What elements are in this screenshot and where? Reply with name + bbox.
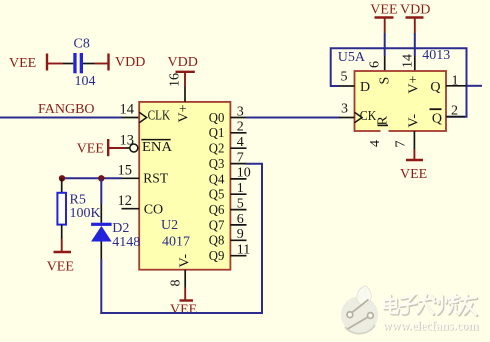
svg-text:5: 5	[237, 196, 244, 211]
svg-text:11: 11	[237, 243, 250, 258]
svg-text:VEE: VEE	[77, 141, 104, 156]
svg-text:Q: Q	[432, 111, 442, 126]
svg-text:7: 7	[394, 141, 409, 148]
svg-text:6: 6	[237, 212, 244, 227]
svg-text:R: R	[376, 116, 391, 126]
svg-text:VEE: VEE	[400, 167, 427, 182]
svg-text:U5A: U5A	[338, 50, 366, 65]
svg-text:D2: D2	[112, 221, 129, 236]
svg-text:2: 2	[237, 120, 244, 135]
svg-text:15: 15	[118, 163, 133, 179]
svg-text:U2: U2	[161, 218, 178, 233]
svg-text:VEE: VEE	[47, 260, 74, 275]
svg-text:V-: V-	[407, 114, 422, 128]
svg-text:4: 4	[237, 135, 244, 150]
svg-text:D: D	[360, 80, 370, 95]
svg-text:10: 10	[237, 166, 251, 181]
svg-text:16: 16	[168, 73, 183, 87]
svg-text:1: 1	[452, 73, 459, 88]
svg-text:VDD: VDD	[400, 3, 430, 18]
svg-text:V+: V+	[407, 75, 422, 93]
svg-text:7: 7	[237, 150, 244, 165]
svg-text:100K: 100K	[70, 206, 101, 221]
svg-text:14: 14	[401, 54, 416, 68]
svg-text:CLK: CLK	[148, 109, 171, 124]
svg-text:Q3: Q3	[209, 157, 225, 172]
svg-text:VEE: VEE	[370, 3, 397, 18]
svg-text:FANGBO: FANGBO	[38, 102, 95, 117]
svg-text:12: 12	[118, 193, 133, 209]
svg-text:CO: CO	[144, 202, 163, 217]
svg-text:Q0: Q0	[209, 111, 225, 126]
svg-text:V-: V-	[177, 254, 192, 268]
svg-text:CK: CK	[360, 109, 377, 124]
svg-text:V+: V+	[177, 104, 192, 122]
svg-text:3: 3	[237, 104, 244, 119]
svg-text:Q6: Q6	[209, 203, 225, 218]
svg-text:14: 14	[120, 102, 135, 118]
svg-text:4: 4	[368, 140, 383, 147]
svg-text:9: 9	[237, 227, 244, 242]
svg-text:VDD: VDD	[168, 55, 198, 70]
svg-text:S: S	[378, 77, 393, 85]
svg-text:4013: 4013	[422, 48, 450, 63]
svg-text:RST: RST	[143, 172, 168, 187]
svg-text:Q5: Q5	[209, 188, 225, 203]
svg-text:C8: C8	[74, 37, 90, 52]
svg-text:VEE: VEE	[9, 56, 36, 71]
svg-text:2: 2	[451, 104, 458, 119]
svg-text:5: 5	[341, 70, 348, 85]
svg-text:Q7: Q7	[209, 218, 225, 233]
svg-text:13: 13	[120, 132, 135, 148]
svg-text:6: 6	[368, 61, 383, 68]
svg-text:3: 3	[341, 102, 348, 117]
svg-text:Q2: Q2	[209, 142, 225, 157]
svg-text:VEE: VEE	[170, 303, 197, 318]
svg-text:Q: Q	[430, 80, 440, 95]
svg-text:104: 104	[75, 74, 96, 89]
svg-text:VDD: VDD	[115, 55, 145, 70]
svg-text:Q8: Q8	[209, 234, 225, 249]
svg-text:Q1: Q1	[209, 126, 225, 141]
svg-text:8: 8	[169, 280, 184, 287]
svg-text:ENA: ENA	[142, 140, 173, 155]
svg-text:www.elecfans.com: www.elecfans.com	[383, 319, 479, 333]
svg-text:1: 1	[237, 181, 244, 196]
svg-text:4017: 4017	[162, 235, 190, 250]
svg-text:4148: 4148	[112, 235, 140, 250]
svg-text:Q9: Q9	[209, 249, 225, 264]
svg-text:Q4: Q4	[209, 172, 225, 187]
